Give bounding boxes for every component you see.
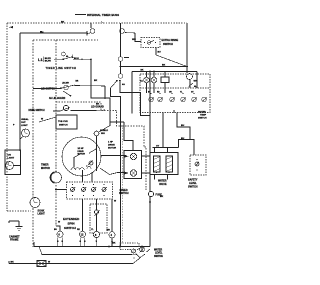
wire assembly right edge xyxy=(196,72,198,89)
wire y255 xyxy=(39,247,137,255)
svg-text:SHIELD: SHIELD xyxy=(100,130,108,132)
contact T right border xyxy=(187,74,198,89)
node junction motor out xyxy=(104,155,106,157)
node junction x105 xyxy=(104,97,106,99)
svg-text:OUT: OUT xyxy=(21,122,26,124)
wire extra rinse output xyxy=(155,48,157,56)
svg-text:DRIVE: DRIVE xyxy=(108,145,115,147)
svg-text:TUB CVR: TUB CVR xyxy=(58,121,68,123)
wire speed box to plug 2 xyxy=(82,199,84,231)
label SHIELD WH xyxy=(100,130,108,135)
timer contact 1 (x91) xyxy=(88,23,95,34)
svg-text:4A LID GUARD: 4A LID GUARD xyxy=(49,97,66,100)
wire protector to x150 2 xyxy=(142,172,151,174)
timer motor xyxy=(41,164,62,184)
wire lid switch in xyxy=(33,88,61,90)
svg-text:MOTOR: MOTOR xyxy=(41,167,50,170)
svg-text:L1: L1 xyxy=(38,57,43,62)
speed switch box xyxy=(67,182,113,199)
node INTERNAL TIMER BUSS label xyxy=(75,13,119,17)
node junction dot B xyxy=(119,80,121,82)
node junction xyxy=(108,246,110,248)
wire y263 xyxy=(9,258,140,264)
wire lid switch out vertical xyxy=(104,86,106,98)
svg-text:WH: WH xyxy=(194,81,198,83)
svg-text:BK: BK xyxy=(61,21,65,23)
water temp assembly top xyxy=(132,71,197,73)
long wire x150 with fuse xyxy=(149,72,151,153)
svg-text:WATER: WATER xyxy=(198,111,206,114)
wire bottom box line xyxy=(34,246,150,248)
switch extra rinse xyxy=(144,41,157,45)
wire x150 below valve xyxy=(149,175,151,192)
wire timer bus to speed switch xyxy=(56,189,67,191)
node junction y63.5 xyxy=(120,66,122,68)
wire x150 below fuse xyxy=(149,197,151,247)
node bus arrowhead xyxy=(40,31,45,34)
svg-text:LIGHT: LIGHT xyxy=(38,213,46,216)
water temp contacts xyxy=(149,93,207,102)
lid switch xyxy=(41,80,79,90)
wire speed sw to connectors xyxy=(56,226,60,231)
svg-text:BK: BK xyxy=(160,196,164,198)
wire chain left feed xyxy=(53,110,60,112)
contact above motor xyxy=(94,125,111,136)
wire console border branch xyxy=(122,126,146,190)
node left border arrow xyxy=(9,26,13,28)
unbal out light xyxy=(13,118,30,140)
timer line switch xyxy=(61,52,73,60)
component small box xyxy=(161,72,169,94)
node tick xyxy=(149,201,151,203)
svg-text:MOTOR: MOTOR xyxy=(108,148,117,150)
water level switch cluster xyxy=(132,246,151,259)
wire x34 corner xyxy=(33,242,35,247)
svg-text:4A: 4A xyxy=(66,55,69,58)
wire right border vertical xyxy=(186,23,188,73)
wire motor to protector 2 xyxy=(100,168,124,175)
svg-text:TEMP: TEMP xyxy=(200,114,207,116)
node tick left xyxy=(8,261,10,264)
wire stub temp box bottom xyxy=(173,110,175,113)
extra rinse switch box xyxy=(141,38,160,48)
wire horizontal bus y63.5 xyxy=(121,66,188,68)
timer contact 2 (x121) xyxy=(120,23,135,33)
svg-text:WH: WH xyxy=(101,133,105,135)
label SPEED SWITCH xyxy=(119,189,129,195)
wire diagonal to x150 xyxy=(120,81,150,116)
soak light xyxy=(30,198,45,216)
on light box xyxy=(5,150,21,175)
timer contact lower xyxy=(118,74,122,78)
label SAFETY LEVEL SWITCH xyxy=(188,179,198,189)
svg-text:EXTRA RINSE: EXTRA RINSE xyxy=(162,39,179,42)
timer contact T upper middle xyxy=(118,57,129,61)
motor internal contacts xyxy=(73,136,97,171)
svg-text:W: W xyxy=(58,222,61,224)
svg-text:KNEE SWITCH: KNEE SWITCH xyxy=(29,110,45,112)
wire dashed horizontal y40 xyxy=(33,39,98,41)
svg-text:BU: BU xyxy=(54,229,57,231)
svg-text:W: W xyxy=(41,119,44,121)
svg-text:LEVEL: LEVEL xyxy=(155,253,163,255)
node junction dot xyxy=(116,80,118,82)
wire motor to protector xyxy=(101,155,124,157)
wire L1 to timer line switch xyxy=(54,58,63,60)
svg-text:BK-PR: BK-PR xyxy=(45,61,52,63)
label motor protector xyxy=(108,142,117,150)
wire feed to motor protector xyxy=(124,122,133,151)
connector L1 xyxy=(38,57,51,63)
svg-text:GY: GY xyxy=(156,146,160,148)
svg-text:SWITCH: SWITCH xyxy=(64,226,76,230)
svg-text:BK: BK xyxy=(94,80,98,82)
svg-text:UNBAL: UNBAL xyxy=(21,118,29,121)
node bus end terminal xyxy=(86,31,88,36)
label EXTRA RINSE SWITCH xyxy=(162,39,179,46)
wire to safety level switch xyxy=(179,140,195,156)
node junction xyxy=(186,66,188,68)
svg-text:RD: RD xyxy=(77,229,80,231)
svg-text:SWITCH: SWITCH xyxy=(188,186,198,189)
svg-text:BK: BK xyxy=(162,65,166,67)
svg-text:YL: YL xyxy=(91,229,94,231)
node junction timer line switch out xyxy=(81,59,83,61)
solenoid coil A xyxy=(144,72,150,94)
wire console dashed left border xyxy=(6,23,8,211)
wire diagonal W xyxy=(39,117,56,122)
svg-text:DRIVE: DRIVE xyxy=(78,151,85,153)
drive motor circle xyxy=(62,137,101,176)
svg-text:EXTENDED: EXTENDED xyxy=(63,217,80,221)
motor winding coils xyxy=(71,167,92,183)
wire dashed vertical x56 xyxy=(55,40,57,226)
svg-text:INTERNAL TIMER BUSS: INTERNAL TIMER BUSS xyxy=(87,13,119,17)
svg-text:WH: WH xyxy=(132,39,136,41)
extended spin switch box xyxy=(90,199,107,233)
fuse xyxy=(148,191,162,196)
svg-text:VALVE: VALVE xyxy=(159,183,167,186)
svg-text:BK: BK xyxy=(96,104,100,106)
svg-text:LIGHT: LIGHT xyxy=(8,158,15,160)
svg-text:BU: BU xyxy=(181,138,185,140)
connector plug 4 xyxy=(107,230,116,247)
node junction xyxy=(149,71,151,73)
wire diagonal to right border xyxy=(156,55,187,67)
wire diagonal to x112 xyxy=(111,81,121,247)
svg-text:BU: BU xyxy=(181,125,185,127)
wire x91 down xyxy=(91,59,124,122)
svg-text:1/2 HP: 1/2 HP xyxy=(78,148,85,150)
svg-text:4A: 4A xyxy=(122,83,125,86)
node junction x91 xyxy=(90,58,92,60)
connector plug 1 xyxy=(54,229,63,246)
svg-text:WATER: WATER xyxy=(154,249,162,252)
wire x121 middle xyxy=(120,23,122,57)
wire lid switch out diagonal xyxy=(76,85,106,88)
wire dashed vertical x33 xyxy=(32,40,34,247)
svg-text:W: W xyxy=(114,201,117,203)
svg-text:LID GUARD: LID GUARD xyxy=(91,105,104,108)
safety switch chain xyxy=(59,105,105,111)
label WATER TEMP SWITCH xyxy=(198,111,207,120)
lid guard switch box xyxy=(56,115,77,129)
svg-text:SWITCH: SWITCH xyxy=(119,192,129,195)
wire to motor contact xyxy=(109,122,111,126)
label WATER VALVE xyxy=(158,179,167,186)
water temp switch box xyxy=(140,74,210,113)
svg-text:ON: ON xyxy=(8,155,12,157)
node tick top bus xyxy=(101,21,103,23)
svg-text:TIMER LINE SWITCH: TIMER LINE SWITCH xyxy=(46,67,77,70)
water valve box xyxy=(150,153,178,180)
node junction coil bus xyxy=(153,71,155,73)
wire water temp inner dashed xyxy=(140,87,210,89)
wire between timer contacts xyxy=(120,61,122,74)
svg-text:SPIN: SPIN xyxy=(68,222,75,226)
svg-text:FRAME: FRAME xyxy=(10,239,19,242)
svg-text:4A: 4A xyxy=(194,85,197,88)
svg-text:P: P xyxy=(13,124,15,126)
node junction xyxy=(186,71,188,73)
svg-text:WH: WH xyxy=(107,230,111,232)
svg-text:LID-WH: LID-WH xyxy=(62,82,69,84)
wire console border staircase xyxy=(56,102,122,243)
wire temp switch out x156 xyxy=(162,113,164,148)
svg-text:SWITCH: SWITCH xyxy=(154,256,163,258)
wire left vertical solid xyxy=(19,33,21,151)
safety level switch box xyxy=(190,155,206,175)
svg-text:1 HP: 1 HP xyxy=(108,142,113,144)
node junction bottom xyxy=(120,243,122,245)
motor protector box xyxy=(124,151,142,179)
svg-text:BK: BK xyxy=(11,262,15,264)
wire protector to x150 xyxy=(142,155,151,157)
svg-text:BU: BU xyxy=(158,52,162,54)
wire valve coil feeds xyxy=(154,148,156,153)
switch unbal arm xyxy=(63,91,70,96)
wire switch to x91 xyxy=(73,58,91,60)
wire temp switch out x177 xyxy=(177,113,190,140)
svg-text:4A: 4A xyxy=(140,80,143,83)
svg-text:SWITCH: SWITCH xyxy=(163,43,173,46)
wire L1 bus horizontal xyxy=(20,32,87,34)
solenoid coil B xyxy=(151,72,157,94)
svg-text:SWITCH: SWITCH xyxy=(59,125,68,127)
wire speed box to plug 4 xyxy=(111,199,113,232)
wire assembly left edge xyxy=(131,72,133,114)
connector plug 3 xyxy=(91,229,100,246)
label WATER LEVEL SWITCH xyxy=(154,249,163,258)
connector plug 2 xyxy=(77,229,86,246)
svg-text:LIGHT: LIGHT xyxy=(21,125,28,127)
wire valve feed horizontal xyxy=(153,147,179,149)
svg-text:BR: BR xyxy=(76,80,79,82)
node junction neutral xyxy=(38,246,40,248)
ground cabinet frame xyxy=(9,221,23,242)
wire to extra rinse switch xyxy=(135,33,141,42)
water level switch dashed box xyxy=(120,243,139,250)
svg-text:BK-PR: BK-PR xyxy=(45,58,52,60)
label EXTENDED SPIN SWITCH xyxy=(58,217,80,230)
svg-text:BK: BK xyxy=(113,243,116,245)
wire console dashed top border xyxy=(7,22,187,24)
speed switch contacts xyxy=(71,184,108,196)
noise filter box xyxy=(37,261,46,267)
svg-text:SWITCH: SWITCH xyxy=(198,117,207,119)
wire console dashed bottom-left border xyxy=(7,210,31,212)
